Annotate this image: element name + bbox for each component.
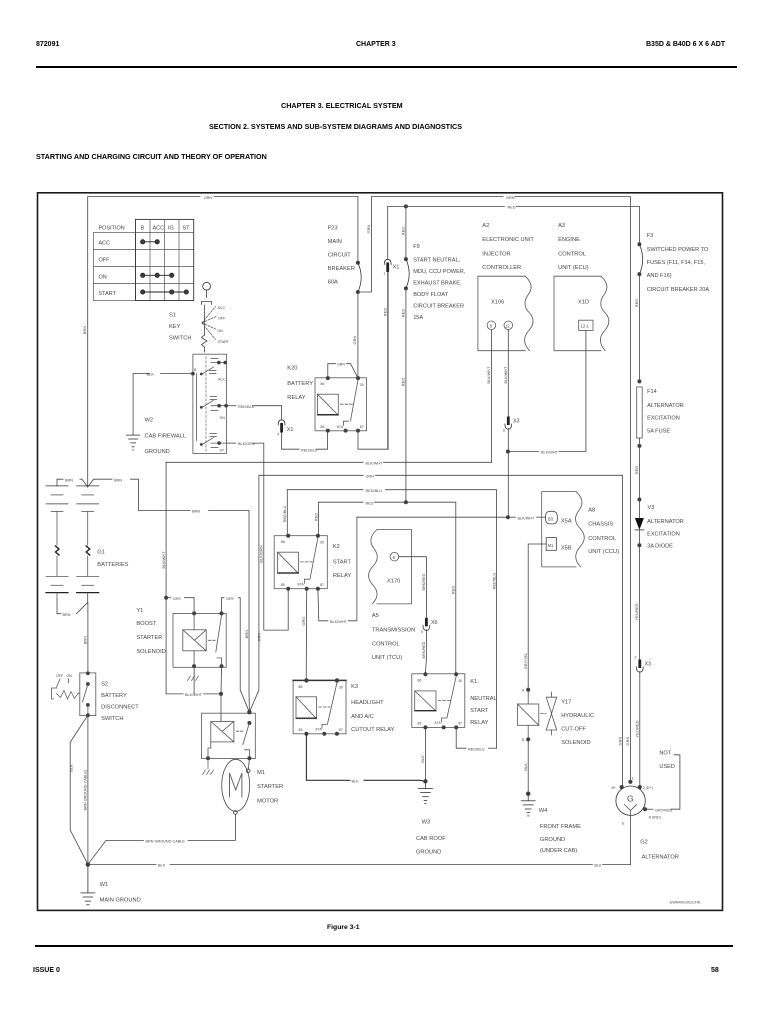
svg-text:CONTROLLER: CONTROLLER (482, 265, 521, 271)
svg-text:30: 30 (458, 679, 462, 683)
connector X106 of A2 (478, 276, 533, 351)
wire battery to S2 (87, 602, 89, 673)
svg-text:GRY: GRY (226, 597, 235, 601)
svg-text:CUTOUT RELAY: CUTOUT RELAY (351, 727, 395, 733)
wire RED bus (318, 502, 320, 536)
svg-text:BRN/RED: BRN/RED (422, 573, 426, 590)
svg-text:BLK: BLK (68, 764, 73, 772)
G2 label (640, 840, 679, 861)
svg-text:GROUND: GROUND (416, 850, 441, 856)
svg-text:(UNDER CAB): (UNDER CAB) (540, 848, 577, 854)
pin 12 (504, 321, 513, 330)
ground W4 (521, 794, 535, 816)
svg-text:GRN: GRN (617, 736, 622, 745)
svg-text:K3: K3 (351, 684, 358, 690)
svg-text:BLK: BLK (158, 864, 166, 868)
svg-text:X1D: X1D (578, 299, 589, 305)
svg-text:BATTERY: BATTERY (101, 693, 127, 699)
wire GRN mid bus left drop to starter junction (249, 475, 259, 712)
svg-text:NOT: NOT (659, 751, 671, 757)
svg-text:85: 85 (321, 425, 325, 429)
svg-text:FRONT FRAME: FRONT FRAME (540, 824, 581, 830)
svg-text:START NEUTRAL,: START NEUTRAL, (413, 258, 460, 264)
svg-text:A8: A8 (588, 508, 595, 514)
svg-text:86: 86 (299, 685, 303, 689)
fuse F14 (634, 379, 642, 499)
svg-text:SOLENOID: SOLENOID (136, 649, 165, 655)
svg-text:SWITCHED POWER TO: SWITCHED POWER TO (647, 247, 709, 253)
diagram border frame (38, 193, 723, 911)
K1 label (470, 679, 497, 726)
F9 label (413, 244, 466, 321)
wire RED/BLK S1 ON to X1 pin 4 (226, 405, 236, 407)
K3 label (351, 684, 395, 733)
wire solenoid to M1 terminal (248, 758, 249, 769)
wire GRN mid bus (259, 474, 363, 476)
svg-text:ON: ON (218, 329, 224, 333)
connector X1 pin 1 (383, 206, 400, 449)
svg-text:86: 86 (418, 679, 422, 683)
svg-text:RED/BLK: RED/BLK (301, 448, 318, 452)
svg-text:15A: 15A (413, 315, 423, 321)
wire BLK main ground run (88, 864, 156, 866)
pin B (191, 372, 195, 376)
svg-text:W3: W3 (422, 820, 431, 826)
wire GRY tap to Y1 coil (166, 597, 171, 599)
header right (646, 41, 725, 48)
connector X3 pin 6 (503, 417, 520, 518)
svg-text:RED: RED (401, 227, 406, 236)
svg-text:NEUTRAL: NEUTRAL (470, 696, 497, 702)
svg-text:BLK: BLK (595, 864, 603, 868)
svg-text:BRN: BRN (65, 478, 73, 482)
svg-text:UNIT (CCU): UNIT (CCU) (588, 549, 619, 555)
wire BRN ground cable S2 to W1 junction (87, 715, 89, 864)
Y17 label (561, 700, 594, 747)
K20 coil jumper GRN 86-30 (328, 364, 336, 378)
svg-text:STARTER: STARTER (257, 784, 283, 790)
K20 label (287, 366, 313, 402)
wire GRN top bus left section (88, 197, 200, 487)
svg-text:X3: X3 (513, 419, 520, 425)
key position truth table S1 (93, 219, 193, 300)
svg-text:DISCONNECT: DISCONNECT (101, 705, 139, 711)
wire BLK K3 85 to W3 (306, 734, 350, 781)
svg-text:ST: ST (220, 449, 225, 453)
svg-text:BRN: BRN (114, 478, 122, 482)
valve symbol (551, 692, 553, 697)
svg-text:OFF: OFF (56, 674, 64, 678)
S1 stage ACC (200, 359, 227, 376)
connector X6 pin 5 (421, 618, 438, 674)
svg-text:RELAY: RELAY (287, 395, 305, 401)
svg-text:CAB FIREWALL: CAB FIREWALL (145, 434, 187, 440)
svg-text:GRN: GRN (506, 196, 515, 200)
svg-text:FUSES (F11, F14, F15,: FUSES (F11, F14, F15, (647, 260, 706, 266)
wire ORG K2 87A to K3 86 (305, 589, 308, 681)
svg-text:B: B (522, 738, 525, 742)
svg-text:BRN: BRN (63, 613, 71, 617)
svg-text:RED: RED (508, 206, 516, 210)
svg-text:BLK/WHT: BLK/WHT (330, 620, 348, 624)
svg-text:2: 2 (635, 656, 637, 660)
svg-text:RED: RED (634, 299, 639, 308)
svg-text:RED/BLU: RED/BLU (492, 573, 496, 590)
svg-text:BATTERIES: BATTERIES (97, 562, 128, 568)
header rule (36, 66, 737, 68)
svg-text:ELECTRONIC UNIT: ELECTRONIC UNIT (482, 237, 534, 243)
wire BLK/WHT X106 pin 8 to bus (490, 330, 492, 463)
svg-text:RED: RED (313, 513, 318, 522)
svg-text:GROUND: GROUND (540, 837, 565, 843)
svg-text:GRN: GRN (204, 196, 212, 200)
svg-text:RED: RED (383, 308, 388, 317)
svg-text:B: B (141, 226, 145, 232)
wire BLK/WHT riser to Y1 (165, 462, 167, 694)
CCU A8 connector X5 (542, 492, 585, 567)
svg-text:G2: G2 (640, 840, 648, 846)
svg-text:A: A (522, 689, 525, 693)
title line 1 (281, 101, 403, 110)
svg-text:S1: S1 (169, 313, 176, 319)
svg-text:EXCITATION: EXCITATION (647, 531, 680, 537)
svg-text:A5: A5 (372, 613, 379, 619)
svg-text:F23: F23 (328, 226, 338, 232)
S1 label (169, 313, 191, 342)
svg-text:BRN: BRN (244, 630, 249, 639)
controller A2 label (482, 223, 534, 271)
svg-text:TRANSMISSION: TRANSMISSION (372, 628, 415, 634)
svg-text:6: 6 (393, 555, 396, 560)
svg-text:ALTERNATOR: ALTERNATOR (642, 855, 679, 861)
table contact dots row START (141, 290, 189, 294)
svg-text:6: 6 (503, 429, 505, 433)
svg-text:GRN: GRN (366, 224, 371, 233)
svg-text:BLK/GRN: BLK/GRN (259, 545, 264, 563)
wire BRN bus to starter junction (139, 509, 191, 511)
svg-text:BRN: BRN (192, 510, 200, 514)
svg-text:BLK/WHT: BLK/WHT (518, 516, 536, 520)
svg-text:MAIN GROUND: MAIN GROUND (100, 898, 141, 904)
table contact dots row ACC (141, 240, 160, 244)
svg-text:BLK/WHT: BLK/WHT (504, 366, 508, 384)
svg-text:OFF: OFF (99, 258, 111, 264)
svg-text:W4: W4 (539, 808, 548, 814)
svg-text:STARTER: STARTER (136, 635, 162, 641)
svg-text:SOLENOID: SOLENOID (561, 740, 590, 746)
svg-text:GRN: GRN (337, 363, 345, 367)
svg-text:GRY/YEL: GRY/YEL (524, 653, 528, 669)
svg-text:CHASSIS: CHASSIS (588, 522, 613, 528)
chassis mark starter solenoid (203, 758, 214, 774)
svg-text:A3: A3 (558, 223, 565, 229)
svg-text:SWITCH: SWITCH (101, 716, 123, 722)
wire BRN/RED X170 to X6 (399, 557, 427, 618)
circuit breaker F23 (352, 197, 361, 379)
svg-text:START: START (470, 708, 489, 714)
svg-text:RED: RED (401, 309, 406, 318)
W4 label (539, 808, 581, 854)
wire BRN battery bottoms link (57, 599, 61, 614)
svg-text:MDU, CCU POWER,: MDU, CCU POWER, (413, 269, 466, 275)
svg-text:3A DIODE: 3A DIODE (647, 544, 673, 550)
svg-text:USED: USED (659, 764, 675, 770)
W3 label (416, 820, 446, 856)
svg-text:HEADLIGHT: HEADLIGHT (351, 700, 384, 706)
wire BLK/WHT X5A feed line (357, 516, 508, 518)
svg-text:CUT-OFF: CUT-OFF (561, 727, 586, 733)
svg-text:5A FUSE: 5A FUSE (647, 429, 670, 435)
relay K1 (412, 672, 465, 729)
S1 stage ON (200, 397, 228, 411)
svg-text:BLK: BLK (420, 755, 425, 763)
battery G1 right stack (77, 486, 99, 593)
svg-text:B+: B+ (612, 786, 617, 790)
svg-text:X106: X106 (491, 299, 504, 305)
svg-text:87: 87 (320, 583, 324, 587)
table contact dots row ON (141, 273, 174, 277)
svg-text:RED/BLU: RED/BLU (366, 489, 383, 493)
svg-text:ORG: ORG (301, 616, 306, 625)
svg-text:1: 1 (632, 776, 634, 780)
svg-text:87: 87 (339, 728, 343, 732)
svg-text:START: START (99, 291, 117, 297)
svg-text:S2: S2 (101, 682, 108, 688)
svg-text:A2: A2 (482, 223, 489, 229)
key switch S1 rotary symbol (202, 282, 217, 352)
svg-text:YEL/RED: YEL/RED (634, 603, 639, 620)
wire GRY/RED D terminal to NOT USED (645, 808, 653, 810)
svg-text:1: 1 (384, 272, 386, 276)
connector X1D of A3 (554, 276, 609, 351)
solenoid M1 starter (engage coil) (202, 710, 256, 760)
header left doc number (36, 41, 59, 48)
svg-text:X170: X170 (387, 578, 400, 584)
svg-text:ST: ST (183, 226, 191, 232)
circuit breaker F3 (634, 206, 643, 381)
node Y1 feed tap (164, 596, 168, 600)
wire GRN top bus right section (372, 196, 504, 198)
svg-text:BLK/WHT: BLK/WHT (162, 551, 166, 569)
svg-text:F9: F9 (413, 244, 420, 250)
svg-text:CONTROL: CONTROL (588, 536, 616, 542)
alternator G2 (612, 776, 661, 825)
wire BLK from S1 pin B to W2 (161, 373, 193, 375)
F3 label (647, 233, 710, 293)
pin X5A B3 (546, 511, 558, 524)
wire BLK/WHT bottom run (166, 693, 183, 695)
svg-text:K2: K2 (333, 544, 340, 550)
svg-text:86: 86 (321, 382, 325, 386)
svg-text:V3: V3 (648, 505, 655, 511)
svg-text:12: 12 (505, 324, 510, 329)
svg-text:CAB ROOF: CAB ROOF (416, 836, 446, 842)
V3 label (647, 505, 684, 550)
svg-text:ACC: ACC (153, 226, 165, 232)
svg-text:BLK/WHT: BLK/WHT (487, 366, 491, 384)
wire RED/BLK X1 to K20 pin 85 (282, 448, 299, 450)
svg-text:87A: 87A (316, 728, 323, 732)
S2 label (101, 682, 139, 723)
svg-text:G: G (627, 794, 634, 804)
svg-text:CONTROL: CONTROL (558, 251, 586, 257)
ground W1 (81, 865, 95, 905)
svg-text:BODY FLOAT: BODY FLOAT (413, 292, 448, 298)
svg-text:RED: RED (451, 586, 456, 595)
circuit breaker F9 (401, 204, 410, 502)
svg-text:E: E (622, 822, 625, 826)
relay K20 (315, 363, 367, 433)
svg-text:BLK/WHT: BLK/WHT (366, 461, 384, 465)
svg-text:M1: M1 (548, 543, 554, 548)
connector X3 pin 2 (635, 656, 652, 788)
svg-text:YEL/RED: YEL/RED (635, 720, 640, 737)
wire BLK/WHT X106 pin 12 down (507, 330, 509, 417)
svg-text:GRY/RED: GRY/RED (655, 808, 672, 812)
wire RED top bus (388, 205, 505, 207)
svg-text:BLK/GRN: BLK/GRN (238, 442, 255, 446)
svg-text:BLK/WHT: BLK/WHT (185, 693, 203, 697)
header center (356, 41, 396, 48)
svg-text:X1: X1 (287, 427, 294, 433)
svg-text:85: 85 (281, 583, 285, 587)
svg-text:X5A: X5A (561, 519, 572, 525)
svg-text:RED/BLU: RED/BLU (468, 747, 485, 751)
svg-text:RED: RED (366, 501, 374, 505)
svg-text:CIRCUIT: CIRCUIT (328, 253, 352, 259)
svg-text:30: 30 (320, 541, 324, 545)
svg-text:ACC: ACC (218, 306, 226, 310)
ground W3 (418, 781, 432, 803)
wire alternator E to BLK ground run (630, 815, 632, 864)
svg-text:K20: K20 (287, 366, 297, 372)
wire GRN riser F23 bottom to top bus (358, 197, 372, 292)
node W1 junction (86, 862, 91, 867)
figure caption (327, 924, 359, 931)
svg-text:RED: RED (401, 378, 406, 387)
svg-text:RED/BLU: RED/BLU (283, 506, 287, 523)
relay K3 (293, 678, 346, 736)
svg-text:87A: 87A (435, 721, 442, 725)
svg-text:BRN GROUND CABLE: BRN GROUND CABLE (146, 840, 186, 844)
solenoid Y1 boost starter (173, 611, 226, 668)
svg-text:87A: 87A (337, 425, 344, 429)
switch S2 battery disconnect (52, 671, 96, 717)
svg-text:2 (D+): 2 (D+) (643, 786, 653, 790)
svg-text:EXHAUST BRAKE,: EXHAUST BRAKE, (413, 281, 462, 287)
pin X5B M1 (546, 538, 556, 551)
svg-text:ALTERNATOR: ALTERNATOR (647, 519, 684, 525)
diode V3 (634, 498, 644, 660)
svg-text:GRN: GRN (366, 474, 375, 478)
K2 label (333, 544, 352, 579)
svg-text:EWA4001001CFW: EWA4001001CFW (670, 901, 701, 905)
wire GRY/YEL X5B to Y17 (528, 544, 546, 690)
wire GRY Y1 switch to starter junction (222, 598, 225, 614)
svg-text:UNIT (ECU): UNIT (ECU) (558, 265, 589, 271)
svg-text:RELAY: RELAY (333, 573, 351, 579)
S1 stage ST (200, 434, 226, 448)
svg-text:EXCITATION: EXCITATION (647, 415, 680, 421)
svg-text:30: 30 (360, 383, 364, 387)
svg-text:GRN: GRN (257, 632, 262, 641)
battery G1 left stack (46, 486, 68, 599)
svg-text:60A: 60A (328, 280, 338, 286)
svg-text:X3: X3 (645, 662, 652, 668)
svg-text:4: 4 (277, 433, 279, 437)
svg-text:ON: ON (99, 274, 107, 280)
W2 label (145, 418, 187, 456)
svg-text:CONTROL: CONTROL (372, 642, 400, 648)
svg-text:OFF: OFF (218, 317, 226, 321)
solenoid Y17 hydraulic cut-off (517, 688, 556, 742)
svg-text:B: B (194, 368, 197, 372)
node W3 junction (423, 779, 427, 783)
svg-text:GRN: GRN (352, 335, 357, 344)
Y1 label (136, 608, 165, 655)
pin 12-1 (579, 320, 593, 330)
svg-text:Y17: Y17 (561, 700, 571, 706)
ground W2 (127, 435, 140, 450)
section heading (36, 152, 267, 161)
node starter coil feed (219, 692, 223, 696)
svg-text:D (IND): D (IND) (649, 816, 661, 820)
wire RED/BLU K1 87 riser (456, 727, 466, 748)
svg-text:START: START (218, 340, 230, 344)
svg-text:BLK: BLK (523, 763, 528, 771)
chassis mark Y1 (188, 676, 199, 681)
svg-text:Y1: Y1 (136, 608, 143, 614)
svg-text:87: 87 (458, 722, 462, 726)
svg-text:POSITION: POSITION (99, 226, 125, 232)
svg-text:BLK/WHT: BLK/WHT (541, 451, 559, 455)
wire BLK Y17 to W4 (527, 739, 529, 793)
wire Y1 coil return to BLK/WHT (193, 666, 195, 694)
svg-text:ALTERNATOR: ALTERNATOR (647, 403, 684, 409)
key switch S1 contact box (193, 354, 227, 453)
svg-text:UNIT (TCU): UNIT (TCU) (372, 655, 402, 661)
svg-text:SWITCH: SWITCH (169, 336, 191, 342)
svg-text:W2: W2 (145, 418, 154, 424)
A8 label (588, 508, 619, 556)
svg-text:B3: B3 (548, 516, 554, 521)
svg-text:START: START (333, 560, 352, 566)
svg-text:RED: RED (634, 466, 639, 475)
svg-text:F3: F3 (647, 233, 654, 239)
svg-text:ON: ON (67, 674, 73, 678)
svg-text:BREAKER: BREAKER (328, 266, 355, 272)
svg-text:BLK: BLK (352, 779, 360, 783)
connector X1 pin 4 (277, 420, 293, 449)
W1 label (100, 882, 141, 904)
svg-text:85: 85 (418, 722, 422, 726)
svg-text:IG: IG (168, 226, 174, 232)
svg-text:F14: F14 (647, 389, 657, 395)
wire BLK/WHT mid bus (166, 461, 363, 463)
svg-text:MAIN: MAIN (328, 239, 342, 245)
svg-text:X5B: X5B (561, 546, 572, 552)
footer right (711, 967, 719, 974)
svg-text:GRY: GRY (173, 597, 182, 601)
footer rule (35, 945, 733, 947)
svg-text:87: 87 (360, 425, 364, 429)
F14 label (647, 389, 684, 435)
svg-text:AND A/C: AND A/C (351, 714, 374, 720)
svg-text:BOOST: BOOST (136, 621, 156, 627)
svg-text:BRN/RED: BRN/RED (422, 641, 426, 658)
svg-text:12-1: 12-1 (581, 324, 590, 329)
footer left (33, 967, 60, 974)
